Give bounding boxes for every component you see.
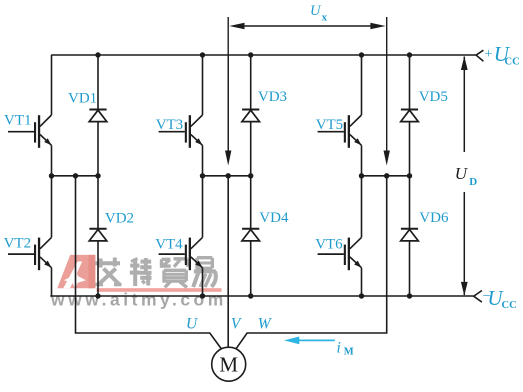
svg-text:VT6: VT6	[315, 236, 343, 252]
svg-text:VT5: VT5	[316, 117, 344, 133]
svg-text:i: i	[337, 339, 341, 356]
svg-text:D: D	[469, 176, 477, 188]
svg-text:x: x	[322, 11, 328, 23]
svg-text:VT2: VT2	[4, 235, 32, 251]
svg-text:VT3: VT3	[156, 117, 184, 133]
svg-text:U: U	[310, 3, 322, 19]
svg-text:www.aitmy.com: www.aitmy.com	[50, 289, 227, 309]
svg-text:W: W	[258, 316, 273, 333]
svg-text:VD6: VD6	[419, 210, 449, 226]
svg-text:VT1: VT1	[4, 113, 32, 129]
svg-text:M: M	[219, 352, 238, 376]
svg-text:VT4: VT4	[155, 236, 183, 252]
svg-text:CC: CC	[502, 300, 517, 311]
svg-text:VD1: VD1	[68, 90, 97, 106]
svg-text:VD2: VD2	[105, 210, 134, 226]
svg-text:CC: CC	[505, 56, 520, 67]
svg-text:V: V	[231, 316, 242, 333]
svg-text:VD5: VD5	[419, 89, 448, 105]
svg-text:U: U	[455, 164, 469, 183]
svg-text:M: M	[344, 347, 354, 358]
svg-text:VD4: VD4	[259, 210, 289, 226]
svg-text:U: U	[186, 316, 199, 333]
svg-text:+: +	[485, 47, 493, 62]
svg-text:VD3: VD3	[258, 89, 287, 105]
